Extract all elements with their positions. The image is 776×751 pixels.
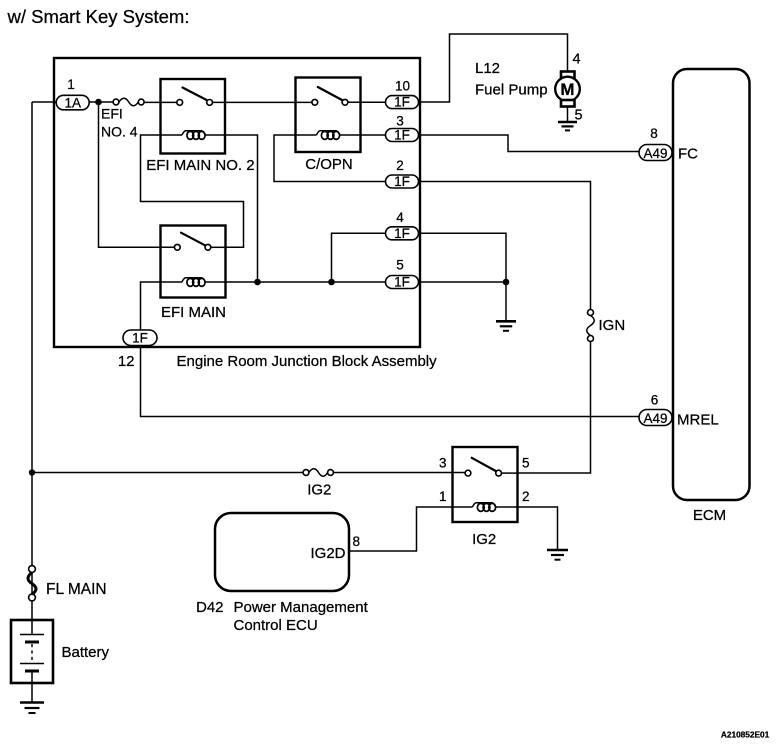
fuse IG2 (303, 470, 309, 476)
svg-text:IGN: IGN (599, 317, 626, 334)
motor L12 fuel pump (555, 72, 580, 107)
connector 1F pin 5 (386, 276, 419, 289)
connector 1F pin 10 (386, 96, 419, 109)
node dot pin5/ground (503, 279, 510, 286)
fuse EFI NO. 4 (113, 99, 119, 105)
wire C/OPN coil left to pin 2 (274, 135, 386, 182)
svg-text:A49: A49 (643, 146, 667, 161)
fusible link FL MAIN (29, 566, 36, 573)
svg-text:w/ Smart Key System:: w/ Smart Key System: (7, 6, 190, 27)
fuse IGN (588, 310, 594, 316)
svg-text:5: 5 (396, 258, 404, 273)
svg-text:1F: 1F (394, 226, 410, 241)
relay C/OPN (296, 78, 361, 174)
svg-text:Engine Room Junction Block Ass: Engine Room Junction Block Assembly (177, 353, 438, 370)
wire EFI MAIN coil left to 1F pin 12 (141, 282, 161, 330)
svg-text:1F: 1F (394, 95, 410, 110)
connector 1F pin 12 (123, 330, 157, 346)
wire EFI MAIN NO.2 coil left loop to EFI MAIN switch out (141, 135, 244, 247)
node junction dot upstream of EFI NO.4 (95, 99, 102, 106)
svg-text:5: 5 (522, 456, 530, 471)
relay EFI MAIN NO. 2 (146, 79, 254, 174)
svg-text:A49: A49 (643, 411, 667, 426)
svg-text:1: 1 (67, 77, 75, 92)
svg-text:1: 1 (439, 489, 447, 504)
node dot coil/pin4 (328, 279, 335, 286)
svg-text:D42: D42 (196, 599, 224, 616)
wire EFI MAIN NO.2 coil right down to node (225, 135, 258, 282)
svg-text:IG2D: IG2D (310, 545, 345, 562)
relay IG2 (453, 447, 518, 548)
svg-text:3: 3 (439, 456, 447, 471)
svg-text:Power Management: Power Management (234, 599, 369, 616)
svg-text:L12: L12 (475, 60, 500, 77)
ECM box (673, 69, 750, 500)
svg-text:M: M (560, 80, 574, 99)
wire EFI MAIN NO.2 switch out to C/OPN switch in (213, 101, 312, 103)
wire IG2 relay pin2 to ground (518, 507, 558, 550)
svg-text:MREL: MREL (677, 412, 719, 429)
svg-text:12: 12 (118, 353, 135, 370)
svg-text:EFI MAIN: EFI MAIN (161, 304, 226, 321)
wire dot to EFI MAIN switch (99, 102, 175, 247)
svg-text:Control ECU: Control ECU (234, 617, 318, 634)
wire pin12 down to MREL (141, 346, 640, 417)
ground battery (20, 703, 44, 714)
svg-text:A210852E01: A210852E01 (721, 730, 770, 740)
svg-text:1F: 1F (132, 331, 148, 346)
wire battery vertical feed (31, 102, 33, 620)
svg-text:IG2: IG2 (472, 531, 496, 548)
svg-text:1F: 1F (394, 128, 410, 143)
wire pin4 right to ground node (419, 233, 507, 282)
wire battery to ground (31, 683, 33, 702)
wire battery to 1A (32, 101, 56, 103)
wire 1A to fuse (89, 101, 113, 103)
connector 1A pin 1 (56, 95, 89, 110)
ground fuel pump (558, 122, 577, 130)
connector 1F pin 3 (386, 129, 419, 142)
svg-text:2: 2 (396, 158, 404, 173)
svg-text:3: 3 (396, 114, 404, 129)
svg-text:6: 6 (651, 393, 659, 408)
node dot coil/NO.2 (254, 279, 261, 286)
connector 1F pin 2 (386, 175, 419, 188)
wire IGN fuse down to IG2 relay pin 5 (518, 342, 591, 474)
svg-text:FL MAIN: FL MAIN (46, 581, 107, 598)
connector 1F pin 4 (386, 227, 419, 240)
D42 Power Management Control ECU box (215, 513, 349, 591)
connector A49 pin 6 MREL (639, 393, 672, 427)
svg-text:ECM: ECM (693, 507, 726, 524)
svg-text:8: 8 (650, 126, 658, 141)
wire C/OPN coil right to pin 3 (361, 134, 386, 136)
svg-text:4: 4 (396, 210, 404, 225)
svg-text:IG2: IG2 (307, 482, 331, 499)
wire C/OPN switch out to pin 10 (348, 101, 386, 103)
svg-text:EFI: EFI (101, 106, 123, 122)
svg-text:1F: 1F (394, 174, 410, 189)
svg-text:4: 4 (573, 52, 581, 68)
svg-text:Battery: Battery (62, 644, 110, 661)
wire pin5 right to ground (419, 282, 507, 321)
wire IG2 relay pin1 to D42 IG2D (349, 507, 453, 551)
svg-text:EFI MAIN NO. 2: EFI MAIN NO. 2 (146, 157, 254, 174)
wire EFI MAIN coil output to pin 5 (226, 281, 386, 283)
wire motor to ground (567, 107, 569, 122)
wire fuse to relay (333, 472, 465, 474)
ground at IG2 relay (547, 550, 568, 560)
battery (11, 620, 53, 683)
wire pin10 up to fuel pump (419, 34, 568, 102)
wire pin4 to node2 (332, 233, 386, 282)
wire pin2 to IGN fuse (419, 182, 591, 310)
svg-text:1A: 1A (64, 96, 81, 111)
svg-text:2: 2 (522, 489, 530, 504)
svg-text:FC: FC (678, 146, 698, 163)
node junction dot at battery/IG2 tap (29, 469, 35, 475)
ground at pins 4/5 (496, 321, 516, 331)
svg-text:Fuel Pump: Fuel Pump (475, 82, 548, 99)
svg-text:1F: 1F (394, 275, 410, 290)
Engine Room Junction Block Assembly box (54, 58, 420, 347)
wire fuse to EFI MAIN NO.2 switch (144, 101, 177, 103)
svg-text:10: 10 (395, 79, 410, 94)
svg-text:C/OPN: C/OPN (305, 156, 353, 173)
svg-text:8: 8 (353, 534, 361, 549)
wire battery tap to IG2 fuse to IG2 relay pin3 (32, 472, 303, 474)
svg-text:NO. 4: NO. 4 (101, 124, 138, 140)
wire pin3 to A49 FC (419, 135, 640, 152)
relay EFI MAIN (161, 226, 227, 322)
connector A49 pin 8 FC (639, 126, 672, 161)
